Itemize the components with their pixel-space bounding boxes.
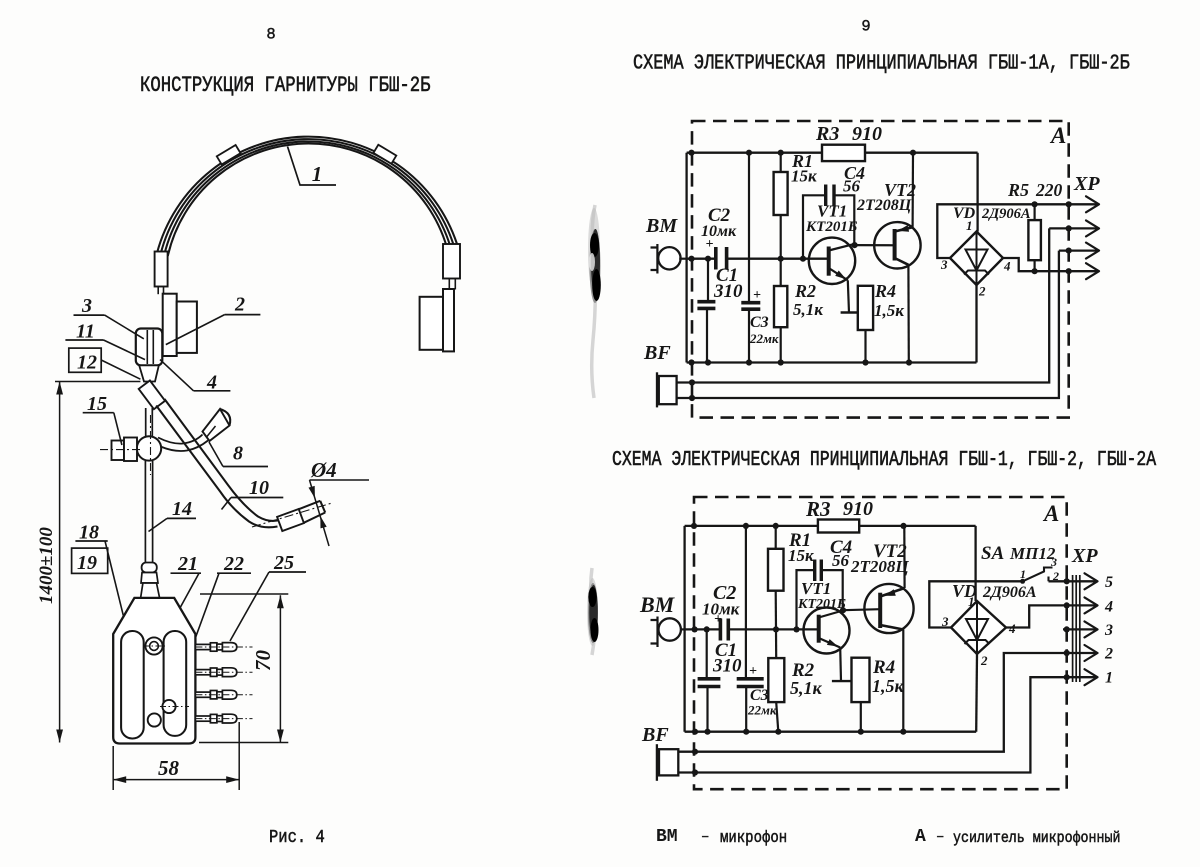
svg-text:3: 3 xyxy=(940,257,948,272)
top rail left segment xyxy=(685,525,818,527)
VT2 emitter arrow 2 xyxy=(884,589,896,596)
wire rail to C3 xyxy=(748,153,750,302)
svg-text:Рис. 4: Рис. 4 xyxy=(269,828,325,849)
wire rail to bridge input xyxy=(974,526,976,601)
wire to R2 xyxy=(775,629,777,658)
connector pin 2 xyxy=(195,668,252,677)
ball joint xyxy=(137,436,161,460)
wire XP2 to BF xyxy=(678,653,1096,752)
resistor R2 body 2 xyxy=(768,658,784,702)
wire XP3 stub xyxy=(1063,628,1096,630)
bracket taper xyxy=(139,365,159,381)
svg-text:КОНСТРУКЦИЯ ГАРНИТУРЫ ГБШ-2Б: КОНСТРУКЦИЯ ГАРНИТУРЫ ГБШ-2Б xyxy=(140,72,431,98)
label 22 underline xyxy=(217,572,251,574)
transistor VT2 (2) xyxy=(864,584,913,633)
svg-text:5: 5 xyxy=(1105,574,1113,591)
label 21 underline xyxy=(171,572,202,574)
XP arrow 1 xyxy=(1085,669,1098,685)
svg-text:микрофон: микрофон xyxy=(720,828,787,847)
svg-text:1: 1 xyxy=(1105,670,1113,687)
axis line xyxy=(100,449,141,451)
connector hole middle xyxy=(162,700,175,713)
svg-text:15: 15 xyxy=(87,393,107,415)
svg-text:ХР: ХР xyxy=(1071,545,1098,567)
wire to C1 xyxy=(706,629,708,678)
svg-text:усилитель микрофонный: усилитель микрофонный xyxy=(953,829,1120,847)
XP arrow 4 xyxy=(1085,597,1098,613)
microphone holder bracket xyxy=(136,329,163,366)
wire bridge3 to XP1 xyxy=(937,204,1099,258)
VT2 emitter arrow xyxy=(898,225,910,232)
svg-text:56: 56 xyxy=(843,177,861,196)
junction signal/edge 2 xyxy=(692,626,698,632)
label 14 leader xyxy=(149,518,168,531)
wire to XP2 xyxy=(1049,227,1099,229)
XP arrow 2 xyxy=(1086,220,1099,236)
svg-text:310: 310 xyxy=(712,656,742,677)
capacitor C4 (2) xyxy=(815,560,822,582)
junction XP5 edge xyxy=(1064,578,1070,584)
connector pin 4 xyxy=(195,714,252,723)
axis line xyxy=(150,415,152,475)
svg-text:А: А xyxy=(915,827,926,847)
svg-text:2: 2 xyxy=(1104,646,1113,663)
cable taper xyxy=(141,573,158,584)
ext line xyxy=(112,746,114,790)
label 22 leader xyxy=(172,573,219,702)
junction rail/C3 2 xyxy=(743,523,749,529)
ext line xyxy=(238,722,240,790)
wire R1 to base node xyxy=(780,215,782,259)
left earcup thin plate xyxy=(163,294,177,356)
wire R4 to rail xyxy=(864,330,866,363)
junction rail/edge 2 xyxy=(691,523,697,529)
svg-text:5,1к: 5,1к xyxy=(790,678,823,698)
svg-text:22мк: 22мк xyxy=(747,703,777,718)
resistor R5 220 body xyxy=(1028,220,1041,260)
wire collector down xyxy=(902,630,904,732)
resistor R1 15k body xyxy=(774,172,788,215)
svg-text:–: – xyxy=(936,829,944,845)
left link wire 1 xyxy=(157,287,159,295)
junction BF wire1 edge xyxy=(689,379,695,385)
svg-text:А: А xyxy=(1049,123,1066,148)
connector pin 1 xyxy=(195,643,252,652)
emitter vertical 2 xyxy=(839,648,842,682)
wire R1 down xyxy=(775,591,777,630)
bracket inner line 2 xyxy=(152,330,154,364)
wire loop right 2 xyxy=(822,570,843,610)
junction signal/C4 loop xyxy=(800,256,806,262)
svg-text:58: 58 xyxy=(158,756,180,780)
headband strip 1 xyxy=(157,137,457,253)
wire R2 down xyxy=(776,702,778,732)
svg-text:–: – xyxy=(701,829,709,845)
junction XP3 edge xyxy=(1064,626,1070,632)
label 3 leader xyxy=(105,315,144,339)
cable line 1 xyxy=(144,461,146,565)
junction XP2 edge xyxy=(1066,225,1072,231)
wire C1 down xyxy=(706,687,708,732)
connector body outline xyxy=(113,598,195,744)
transistor VT1 (2) xyxy=(804,608,850,654)
connector bar line 3 xyxy=(1079,575,1081,682)
wire to XP3 xyxy=(1059,249,1099,251)
svg-text:R3: R3 xyxy=(805,497,831,521)
right link wire 2 xyxy=(454,279,456,290)
svg-text:8: 8 xyxy=(233,443,243,465)
transistor VT2 xyxy=(874,222,920,268)
svg-text:R3: R3 xyxy=(815,123,839,145)
right earcup body xyxy=(420,297,443,350)
svg-text:C3: C3 xyxy=(750,687,769,704)
junction XP3 edge xyxy=(1066,248,1072,254)
ext line xyxy=(200,593,288,595)
microphone BM (2) xyxy=(651,617,685,648)
label 14 underline xyxy=(167,517,196,519)
capacitor C2 (2) xyxy=(720,619,728,641)
side fitting (15) xyxy=(112,441,125,461)
svg-text:4: 4 xyxy=(1104,599,1113,616)
wire base to R2 xyxy=(780,259,782,286)
svg-text:+: + xyxy=(749,664,757,679)
svg-text:21: 21 xyxy=(177,553,198,575)
svg-text:220: 220 xyxy=(1035,180,1063,200)
svg-text:КТ201Б: КТ201Б xyxy=(805,219,858,235)
svg-text:25: 25 xyxy=(273,552,294,574)
svg-text:910: 910 xyxy=(843,498,873,520)
junction rail/VT2 emitter xyxy=(910,150,916,156)
junction VT2/bottom 2 xyxy=(900,729,906,735)
wire emitter up xyxy=(903,526,905,588)
junction VT2/bottom rail xyxy=(906,359,912,365)
svg-text:10мк: 10мк xyxy=(702,600,740,619)
svg-text:8: 8 xyxy=(266,26,275,44)
dim arrow up xyxy=(56,382,63,395)
XP arrow 4 xyxy=(1086,263,1099,279)
wire rail to R1 xyxy=(780,153,782,172)
connector hole top xyxy=(145,637,162,654)
cable line 2 xyxy=(152,461,154,565)
label 10 underline xyxy=(231,497,283,499)
junction rail/R1 xyxy=(778,150,784,156)
resistor R1 body 2 xyxy=(768,549,784,591)
headband strip 3 xyxy=(164,141,450,255)
resistor R4 body 2 xyxy=(852,658,870,702)
switch SA MP12 xyxy=(1020,568,1052,584)
left vertical wire xyxy=(683,526,685,732)
svg-text:C3: C3 xyxy=(750,314,769,331)
dim arrow down xyxy=(56,730,63,743)
bottom rail xyxy=(687,361,977,363)
dim 58 arrow left xyxy=(113,776,126,783)
svg-text:2Т208Ц: 2Т208Ц xyxy=(850,557,909,576)
svg-text:3: 3 xyxy=(81,295,92,317)
junction rail/C3 branch xyxy=(746,150,752,156)
junction signal/C4 2 xyxy=(793,626,799,632)
label 2 underline xyxy=(225,314,261,316)
svg-text:3: 3 xyxy=(1050,555,1057,569)
right earcup thin plate xyxy=(443,289,454,351)
headband strip 2 xyxy=(161,139,454,254)
label 8 underline xyxy=(223,466,268,468)
label 8 leader xyxy=(209,442,223,467)
junction R2/bottom 2 xyxy=(775,729,781,735)
svg-text:15к: 15к xyxy=(788,546,814,565)
svg-text:22мк: 22мк xyxy=(749,331,779,346)
wire collector down xyxy=(907,265,910,363)
junction XP2 edge xyxy=(1064,650,1070,656)
signal wire xyxy=(685,628,720,630)
bracket inner line 1 xyxy=(146,330,148,364)
hole axis xyxy=(160,706,189,708)
svg-text:1400±100: 1400±100 xyxy=(36,527,57,604)
headband pad right xyxy=(373,145,396,164)
junction R2/bottom rail xyxy=(778,359,784,365)
diode bridge VD 2D906A xyxy=(950,232,1003,286)
label 3 underline xyxy=(74,314,105,316)
junction XP1 edge xyxy=(1066,201,1072,207)
svg-text:19: 19 xyxy=(77,552,97,574)
svg-text:56: 56 xyxy=(832,551,850,570)
junction R5 top xyxy=(1032,201,1038,207)
connector pin 3 xyxy=(195,690,252,699)
XP arrow 1 xyxy=(1086,196,1099,212)
top rail left segment xyxy=(687,152,822,154)
label 18 leader xyxy=(105,541,132,650)
hole axis xyxy=(143,645,165,647)
junction C1/bottom 2 xyxy=(704,729,710,735)
emitter vertical xyxy=(848,280,849,312)
label 25 leader xyxy=(230,572,269,641)
svg-text:А: А xyxy=(1042,501,1059,526)
svg-text:ХР: ХР xyxy=(1073,173,1100,195)
svg-text:9: 9 xyxy=(861,18,870,36)
svg-text:R4: R4 xyxy=(872,657,895,678)
svg-text:70: 70 xyxy=(251,650,275,672)
svg-text:910: 910 xyxy=(852,123,882,145)
svg-text:10: 10 xyxy=(249,477,269,499)
wire to VT2 base xyxy=(855,244,895,246)
svg-text:R2: R2 xyxy=(794,281,816,301)
speaker BF (2) xyxy=(657,744,678,781)
wire to VT2 base xyxy=(843,609,880,610)
wire XP1 to BF xyxy=(678,677,1096,772)
junction R5 bottom xyxy=(1032,268,1038,274)
svg-text:МП12: МП12 xyxy=(1009,544,1056,563)
label 15 underline xyxy=(83,412,114,414)
junction rail/dashed edge xyxy=(688,150,694,156)
shaft line 1 xyxy=(145,408,147,438)
svg-text:14: 14 xyxy=(172,498,192,520)
junction bottom/edge 2 xyxy=(692,729,698,735)
wire XP2 to BF xyxy=(677,228,1049,382)
shaft line 2 xyxy=(151,408,153,438)
emitter T bar xyxy=(841,311,858,313)
label 12 leader xyxy=(101,360,140,379)
svg-text:2Д906А: 2Д906А xyxy=(982,584,1037,601)
connector bar line 2 xyxy=(1075,575,1077,682)
wire emitter up xyxy=(911,153,914,228)
svg-text:VT1: VT1 xyxy=(801,579,831,598)
junction R4/bottom rail xyxy=(862,359,868,365)
resistor R4 1.5k body xyxy=(858,286,873,330)
dim d4 arrow lower xyxy=(320,516,326,528)
boom axis xyxy=(252,503,332,527)
XP arrow 2 xyxy=(1085,645,1098,661)
svg-text:2Т208Ц: 2Т208Ц xyxy=(856,197,912,214)
capacitor C1 plates 2 xyxy=(698,679,721,687)
resistor R3 910 body xyxy=(822,145,865,161)
label 11 leader xyxy=(104,340,146,360)
dim 70 arrow up xyxy=(277,595,284,608)
svg-text:ВМ: ВМ xyxy=(639,592,676,617)
VT1 emitter arrow 2 xyxy=(827,639,838,647)
headband pad left xyxy=(217,145,241,164)
wire bridge4 to XP4 xyxy=(1006,605,1096,627)
connector right slot xyxy=(164,631,187,736)
svg-text:R4: R4 xyxy=(874,281,896,301)
left slider block xyxy=(155,252,168,287)
svg-text:BF: BF xyxy=(641,724,669,746)
label 18 underline xyxy=(75,540,107,542)
svg-text:1,5к: 1,5к xyxy=(874,301,904,320)
junction signal/left edge xyxy=(688,256,694,262)
svg-text:2Д906А: 2Д906А xyxy=(981,206,1031,222)
headband strip 4 xyxy=(168,144,447,256)
junction BF2 edge 2 xyxy=(692,769,698,775)
svg-text:1,5к: 1,5к xyxy=(872,676,905,696)
wire R2 to rail xyxy=(780,327,782,362)
wire rail to bridge input 1 xyxy=(976,153,978,232)
dim slant line xyxy=(310,480,330,546)
microphone BM xyxy=(651,244,687,274)
cone line xyxy=(207,426,216,437)
label 21 leader xyxy=(158,573,200,649)
wire to C1 xyxy=(707,259,709,301)
scan smudge bottom (gutter) xyxy=(587,568,599,655)
boom swivel collar xyxy=(139,381,165,410)
wire loop right xyxy=(834,195,854,244)
wire bridge2 down xyxy=(975,654,978,732)
XP arrow 5 xyxy=(1085,573,1098,589)
label 10 leader xyxy=(222,498,232,510)
capacitor C3 plates xyxy=(741,303,760,310)
label 25 underline xyxy=(269,571,306,573)
boom end collar xyxy=(277,509,304,531)
wire bridge4 to XP4 xyxy=(1003,258,1099,271)
junction BF1 edge 2 xyxy=(692,749,698,755)
junction XP4 edge xyxy=(1064,602,1070,608)
boom tip tube xyxy=(299,501,326,523)
junction signal/C1 2 xyxy=(704,626,710,632)
wire C1 to ground rail xyxy=(706,309,708,363)
svg-text:3: 3 xyxy=(1104,622,1113,639)
dim line xyxy=(59,382,61,743)
junction C3/bottom 2 xyxy=(743,729,749,735)
boom tube upper edge xyxy=(165,399,282,521)
earpiece tube xyxy=(158,435,203,444)
earpiece cone xyxy=(203,409,230,441)
left vertical wire xyxy=(685,153,687,363)
amplifier box A (dashed) xyxy=(692,121,1069,418)
svg-text:Ø4: Ø4 xyxy=(310,458,337,482)
svg-text:СХЕМА ЭЛЕКТРИЧЕСКАЯ ПРИНЦИПИАЛ: СХЕМА ЭЛЕКТРИЧЕСКАЯ ПРИНЦИПИАЛЬНАЯ ГБШ-1… xyxy=(633,51,1130,76)
junction VT1 collector xyxy=(852,242,858,248)
svg-text:BF: BF xyxy=(643,342,671,364)
left earcup body xyxy=(177,302,197,353)
capacitor C1 plates xyxy=(697,302,715,309)
signal wire C2 to VT1 base xyxy=(727,258,829,260)
right link wire xyxy=(448,279,450,290)
dim 70 arrow down xyxy=(277,730,284,743)
svg-text:VD: VD xyxy=(953,205,976,222)
svg-text:R5: R5 xyxy=(1007,180,1029,200)
wire R4 down xyxy=(860,702,862,732)
svg-text:2: 2 xyxy=(978,284,986,299)
svg-text:5,1к: 5,1к xyxy=(793,300,823,319)
wire C3 down xyxy=(745,687,747,732)
svg-text:КТ201Б: КТ201Б xyxy=(797,597,846,612)
svg-text:1: 1 xyxy=(312,162,323,186)
junction R4/bottom 2 xyxy=(858,729,864,735)
dim d4 arrow upper xyxy=(309,486,315,498)
dim line xyxy=(113,779,239,781)
svg-text:2: 2 xyxy=(234,294,245,316)
svg-text:310: 310 xyxy=(713,281,743,302)
capacitor C3 plates 2 xyxy=(737,679,764,687)
svg-text:1: 1 xyxy=(1020,567,1026,581)
label 2 leader xyxy=(166,315,225,345)
resistor R2 5.1k body xyxy=(774,286,787,327)
wire bridge2 down xyxy=(975,285,977,363)
capacitor C4 xyxy=(826,185,834,207)
svg-text:4: 4 xyxy=(1003,259,1011,274)
cable grommet bead xyxy=(142,563,157,573)
wire C3 to rail xyxy=(748,309,750,363)
junction C3/bottom rail xyxy=(746,359,752,365)
svg-text:VD: VD xyxy=(952,581,977,601)
label 11 underline xyxy=(65,339,103,341)
wire loop left xyxy=(803,195,825,258)
top rail right segment xyxy=(865,152,978,154)
boom tube lower edge xyxy=(156,406,277,528)
junction left/bottom rail xyxy=(688,359,694,365)
label 15 leader xyxy=(114,413,122,445)
dim line xyxy=(279,595,281,742)
strain relief neck xyxy=(141,583,160,598)
junction rail/R1 2 xyxy=(773,523,779,529)
leader of callout 1 xyxy=(288,147,337,186)
junction rail/VT2 2 xyxy=(900,523,906,529)
junction signal/R1-R2 xyxy=(778,256,784,262)
junction XP4 edge xyxy=(1066,268,1072,274)
svg-text:+: + xyxy=(753,288,761,303)
junction VT1 collector 2 xyxy=(840,607,846,613)
connector bar line 1 xyxy=(1072,575,1074,682)
wire to XP5 xyxy=(1049,580,1097,582)
svg-text:СХЕМА ЭЛЕКТРИЧЕСКАЯ ПРИНЦИПИАЛ: СХЕМА ЭЛЕКТРИЧЕСКАЯ ПРИНЦИПИАЛЬНАЯ ГБШ-1… xyxy=(612,447,1157,472)
label 4 leader xyxy=(160,360,194,391)
transistor VT1 xyxy=(809,238,855,284)
svg-text:SA: SA xyxy=(981,543,1004,564)
ext line xyxy=(199,742,288,744)
junction signal/C1 branch xyxy=(705,256,711,262)
svg-text:22: 22 xyxy=(223,553,244,575)
junction C1/bottom rail xyxy=(705,359,711,365)
left link wire 2 xyxy=(163,287,165,295)
bottom rail xyxy=(685,731,977,733)
